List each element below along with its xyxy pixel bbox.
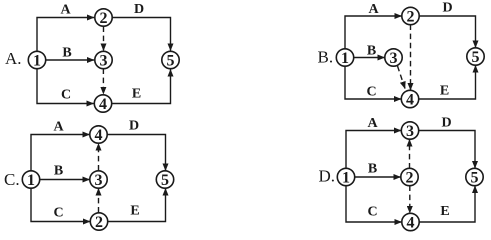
svg-text:A: A: [53, 120, 64, 135]
svg-text:D: D: [134, 2, 144, 17]
svg-text:C: C: [366, 85, 376, 100]
svg-text:2: 2: [407, 8, 415, 25]
svg-text:3: 3: [95, 172, 103, 189]
svg-text:3: 3: [390, 50, 398, 67]
svg-text:A: A: [60, 3, 71, 18]
svg-text:1: 1: [27, 172, 35, 189]
svg-text:E: E: [130, 204, 139, 219]
svg-text:A: A: [368, 2, 379, 17]
svg-text:5: 5: [471, 169, 479, 186]
svg-text:5: 5: [167, 52, 175, 69]
svg-text:B: B: [54, 164, 63, 179]
svg-text:3: 3: [100, 52, 108, 69]
svg-text:E: E: [440, 84, 449, 99]
svg-text:4: 4: [407, 214, 415, 231]
svg-text:1: 1: [33, 52, 41, 69]
svg-text:B: B: [367, 44, 376, 59]
svg-text:1: 1: [342, 169, 350, 186]
svg-text:4: 4: [406, 91, 414, 108]
svg-text:5: 5: [161, 172, 169, 189]
svg-text:5: 5: [472, 49, 480, 66]
svg-text:E: E: [440, 204, 449, 219]
svg-text:4: 4: [95, 127, 103, 144]
svg-text:C: C: [61, 88, 71, 103]
svg-text:D.: D.: [319, 167, 336, 186]
svg-text:1: 1: [341, 50, 349, 67]
svg-text:D: D: [129, 119, 139, 134]
svg-text:A.: A.: [5, 49, 22, 68]
svg-text:B.: B.: [318, 48, 334, 67]
svg-text:2: 2: [406, 169, 414, 186]
svg-text:D: D: [441, 116, 451, 131]
svg-text:C: C: [53, 206, 63, 221]
svg-text:B: B: [368, 162, 377, 177]
svg-text:4: 4: [99, 96, 107, 113]
svg-text:C: C: [367, 205, 377, 220]
svg-text:3: 3: [406, 123, 414, 140]
svg-text:D: D: [442, 1, 452, 16]
svg-text:A: A: [367, 116, 378, 131]
svg-text:B: B: [62, 46, 71, 61]
svg-text:2: 2: [100, 10, 108, 27]
svg-text:2: 2: [95, 214, 103, 231]
svg-text:C.: C.: [4, 170, 20, 189]
svg-text:E: E: [132, 87, 141, 102]
